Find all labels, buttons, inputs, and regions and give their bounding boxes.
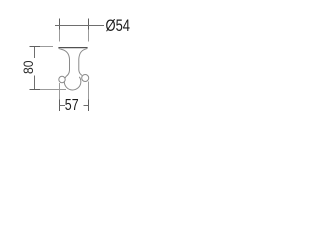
- dimension 57: dimension line right segment: [84, 105, 89, 107]
- svg-text:57: 57: [65, 97, 79, 114]
- dimension 57: right extension line: [88, 82, 90, 100]
- bracket ball end (large circle, visible arc): [64, 76, 81, 90]
- bracket flange top bar: [58, 47, 87, 48]
- bracket left small circle: [59, 76, 65, 82]
- dimension 80: top extension line: [30, 46, 41, 48]
- dimension Ø54: dimension line: [55, 25, 104, 27]
- dimension 80: vertical dimension line upper segment: [34, 47, 36, 59]
- bracket stem right edge with trumpet curve: [79, 49, 85, 75]
- bracket flange rim left flick: [59, 48, 62, 49]
- dimension Ø54: left extension line: [59, 19, 61, 30]
- svg-text:Ø54: Ø54: [106, 17, 131, 35]
- dimension 80: vertical dimension line lower segment: [34, 76, 36, 90]
- bracket stem left edge with trumpet curve: [61, 49, 70, 76]
- dimension 57: left extension line: [59, 83, 61, 100]
- dimension 80: bottom extension line: [30, 89, 41, 91]
- bracket flange rim right flick: [85, 48, 88, 49]
- dimension Ø54: right extension line: [88, 19, 90, 30]
- svg-text:80: 80: [20, 60, 36, 74]
- dimension 57: dimension line left segment: [60, 105, 66, 107]
- bracket right small circle: [82, 75, 89, 82]
